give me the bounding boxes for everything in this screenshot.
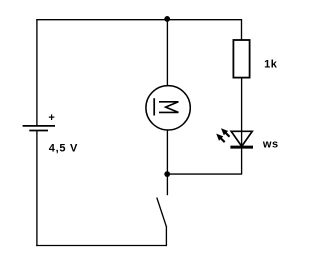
motor M1 letter M (rotated 90deg)	[159, 102, 178, 113]
wire motor upper lead	[166, 20, 168, 86]
wire middle rail (junction to LED branch)	[167, 173, 242, 175]
wire bottom rail	[36, 245, 166, 247]
svg-text:1k: 1k	[264, 58, 278, 70]
wire right branch upper (top rail to resistor)	[241, 19, 243, 40]
wire motor lower lead	[166, 130, 168, 174]
node junction lower (motor/switch/LED net)	[164, 171, 170, 177]
motor M1 body circle	[146, 86, 190, 130]
node junction top (motor/top rail)	[164, 16, 170, 22]
switch S1 blade (open)	[157, 198, 167, 227]
svg-text:4,5 V: 4,5 V	[49, 143, 78, 155]
LED D1 cathode bar	[230, 146, 253, 149]
wire resistor to LED	[241, 78, 243, 147]
wire left branch lower (battery to bottom rail)	[36, 131, 38, 247]
battery B1 negative plate (short)	[29, 130, 48, 132]
wire top rail	[36, 19, 241, 21]
svg-text:+: +	[48, 112, 54, 124]
svg-text:ws: ws	[262, 138, 279, 150]
wire switch lower lead	[165, 226, 167, 246]
motor M1 underline bar (rotated)	[153, 98, 155, 115]
wire LED lower lead	[241, 147, 243, 174]
LED D1 emission arrow 1	[221, 128, 230, 137]
LED D1 triangle (anode)	[231, 131, 252, 146]
wire left branch upper (top rail to battery)	[36, 20, 38, 126]
LED D1 emission arrow 2	[216, 134, 225, 143]
battery B1 positive plate (long)	[23, 125, 55, 127]
wire switch upper lead	[166, 174, 168, 195]
resistor R1 body	[233, 40, 249, 78]
